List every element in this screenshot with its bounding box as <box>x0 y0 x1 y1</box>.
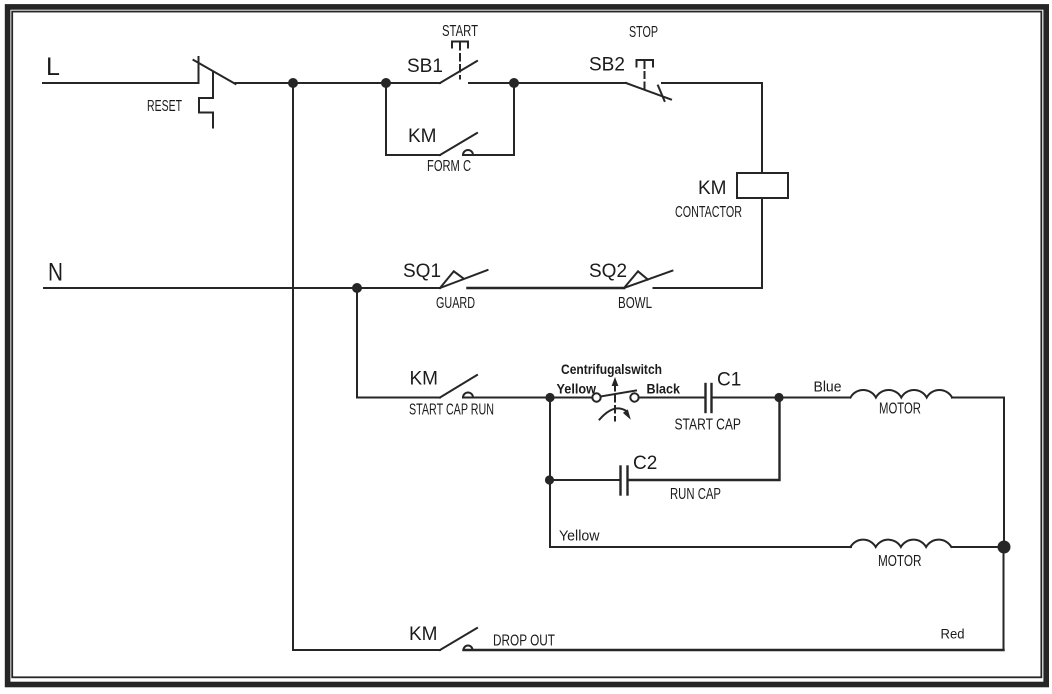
junction node at vertical feeder <box>288 78 298 88</box>
svg-text:START CAP: START CAP <box>675 417 742 434</box>
svg-text:SQ1: SQ1 <box>403 261 441 282</box>
switch SB2 pushbutton actuator bracket <box>637 60 654 67</box>
svg-text:CONTACTOR: CONTACTOR <box>675 204 742 221</box>
svg-text:C1: C1 <box>717 370 741 391</box>
breaker RESET fixed tick <box>198 57 200 83</box>
svg-text:MOTOR: MOTOR <box>879 401 921 418</box>
centrifugal switch actuator dashed arrow <box>614 384 616 421</box>
svg-text:Centrifugalswitch: Centrifugalswitch <box>561 361 662 377</box>
wire drop-out right <box>464 649 1004 651</box>
wire L rail left <box>43 82 198 84</box>
contact KM start-cap fixed contact <box>463 393 473 398</box>
capacitor C2 right plate <box>626 467 628 495</box>
junction node N feeder <box>352 283 362 293</box>
svg-text:KM: KM <box>408 126 437 147</box>
svg-text:Black: Black <box>647 381 681 397</box>
breaker RESET blade <box>194 60 236 84</box>
svg-text:Yellow: Yellow <box>559 528 600 545</box>
capacitor C1 left plate <box>704 384 706 412</box>
svg-text:Blue: Blue <box>814 379 842 396</box>
svg-text:START: START <box>442 23 478 40</box>
junction node yellow <box>545 393 554 402</box>
inductor MOTOR run winding <box>851 540 952 547</box>
wire SB1 to SB2 <box>469 82 626 84</box>
svg-text:START CAP RUN: START CAP RUN <box>409 402 494 419</box>
switch SB1 actuator dashed link <box>459 42 461 50</box>
centrifugal switch left contact <box>592 393 600 401</box>
switch SQ2 blade <box>624 271 672 288</box>
wire motor to right bus <box>952 398 1004 548</box>
contact KM holding fixed contact <box>463 150 473 155</box>
switch SB1 pushbutton actuator bracket <box>452 42 468 48</box>
wire contact to yellow node <box>463 397 550 399</box>
wire yellow node to centrifugal contact <box>550 397 592 399</box>
wire L rail mid <box>236 82 441 84</box>
svg-text:GUARD: GUARD <box>436 295 475 312</box>
switch SB2 actuator dashed link <box>644 60 646 68</box>
wire centrifugal to C1 <box>639 397 705 399</box>
wire SQ2 to coil return <box>654 287 763 289</box>
svg-text:RUN CAP: RUN CAP <box>670 486 721 503</box>
svg-text:STOP: STOP <box>629 24 658 41</box>
junction node SB1 left <box>381 78 391 88</box>
wire SQ1 to SQ2 <box>468 287 625 290</box>
junction node C2 <box>545 475 554 484</box>
wire right bus down <box>1003 547 1005 650</box>
contact KM start-cap blade <box>440 375 477 398</box>
svg-text:BOWL: BOWL <box>618 295 652 312</box>
svg-text:KM: KM <box>698 178 727 199</box>
svg-text:Yellow: Yellow <box>557 381 597 397</box>
centrifugal switch arrow head <box>612 377 619 386</box>
wire run winding to right bus <box>953 546 1004 548</box>
rotation arrow arc <box>600 408 626 419</box>
centrifugal switch blade <box>601 391 637 397</box>
centrifugal switch right contact <box>630 393 638 401</box>
svg-text:SQ2: SQ2 <box>589 261 627 282</box>
wire coil bottom to N rail <box>761 198 763 288</box>
switch SQ1 blade <box>440 270 488 288</box>
wire C1 to blue node <box>713 397 851 399</box>
wire N feeder down <box>356 288 358 398</box>
svg-text:Red: Red <box>941 626 965 642</box>
switch SQ2 cam <box>624 271 648 288</box>
switch SQ1 cam <box>440 271 464 288</box>
junction node SB1 right <box>509 78 519 88</box>
rotation arrow head <box>623 409 631 419</box>
wire feeder to KM start-cap contact <box>357 397 440 399</box>
svg-text:FORM C: FORM C <box>427 158 471 175</box>
capacitor C2 left plate <box>619 467 621 495</box>
coil KM contactor <box>737 173 788 198</box>
svg-text:SB2: SB2 <box>589 55 625 76</box>
wire yellow node down <box>549 398 551 548</box>
svg-text:C2: C2 <box>633 453 657 474</box>
junction node right bus <box>998 541 1011 554</box>
contact KM holding blade <box>440 133 477 155</box>
wire to C2 <box>550 479 620 481</box>
junction node blue <box>774 393 783 402</box>
wire C2 to blue node riser <box>629 398 780 481</box>
contact KM drop-out blade <box>440 628 477 650</box>
switch SB1 blade <box>440 61 477 83</box>
svg-text:KM: KM <box>409 624 438 645</box>
switch SB2 blade <box>626 83 671 100</box>
wire vertical feeder (L to drop-out) <box>292 83 294 650</box>
wire KM holding branch right <box>463 83 514 155</box>
wire N rail left <box>44 287 440 289</box>
inductor MOTOR main winding <box>851 390 953 398</box>
wire SB2 to coil drop <box>662 83 762 173</box>
breaker RESET trip linkage <box>199 72 213 128</box>
contact KM drop-out fixed contact <box>464 646 473 651</box>
switch SB2 contact bar <box>658 86 665 102</box>
svg-text:L: L <box>46 53 60 81</box>
svg-text:MOTOR: MOTOR <box>878 553 922 570</box>
svg-text:RESET: RESET <box>147 98 182 115</box>
wire drop-out left <box>293 649 440 651</box>
wire yellow run to motor <box>550 546 851 548</box>
svg-text:N: N <box>48 259 63 287</box>
svg-text:KM: KM <box>410 369 439 390</box>
svg-text:DROP OUT: DROP OUT <box>493 633 555 650</box>
capacitor C1 right plate <box>710 384 712 412</box>
svg-text:SB1: SB1 <box>407 56 443 77</box>
wire KM holding branch left <box>386 83 440 155</box>
